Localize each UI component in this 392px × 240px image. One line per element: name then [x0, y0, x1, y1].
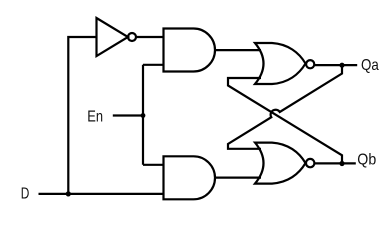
wire: feedback net from Qb node to NOR1 lower input (straight diagonal, passes under hop): [228, 78, 342, 164]
NOR gate U5 (bottom) body: [255, 143, 306, 184]
inverter U1 output bubble: [128, 33, 136, 41]
node: En junction dot: [141, 113, 146, 118]
svg-text:En: En: [87, 109, 103, 126]
wire: En branch to AND1 lower input: [143, 64, 164, 66]
AND gate U3 (bottom): [164, 156, 216, 199]
node: Qa junction dot: [339, 63, 344, 68]
wire: NOR2 output to Qb: [315, 162, 356, 164]
svg-text:D: D: [21, 186, 30, 203]
wire: AND2 output to NOR2 lower input: [215, 177, 261, 179]
wire: NOR1 output to Qa: [315, 64, 358, 66]
svg-text:Qa: Qa: [361, 57, 379, 74]
wire: feedback net from Qa node to NOR2 upper input (diagonal with hop over): [228, 65, 342, 149]
NOR U4 output bubble: [306, 60, 314, 68]
NOR U5 output bubble: [306, 159, 314, 167]
inverter U1 triangle: [97, 18, 129, 56]
wire: En vertical branch: [142, 65, 144, 165]
node: Qb junction dot: [339, 161, 344, 166]
NOR gate U4 (top) body: [255, 43, 306, 84]
node: D branch junction dot: [66, 191, 71, 196]
wire: En horizontal: [113, 114, 143, 116]
AND gate U2 (top): [164, 29, 215, 72]
wire: inverter output to AND1 upper input: [136, 36, 164, 38]
wire: left vertical rail from D junction up to inverter input: [68, 37, 96, 194]
wire: AND1 output to NOR1 upper input: [215, 49, 261, 51]
wire: En branch to AND2 upper input: [143, 164, 164, 166]
wire: D input horizontal to AND2 lower input: [39, 193, 165, 195]
svg-text:Qb: Qb: [357, 151, 376, 168]
